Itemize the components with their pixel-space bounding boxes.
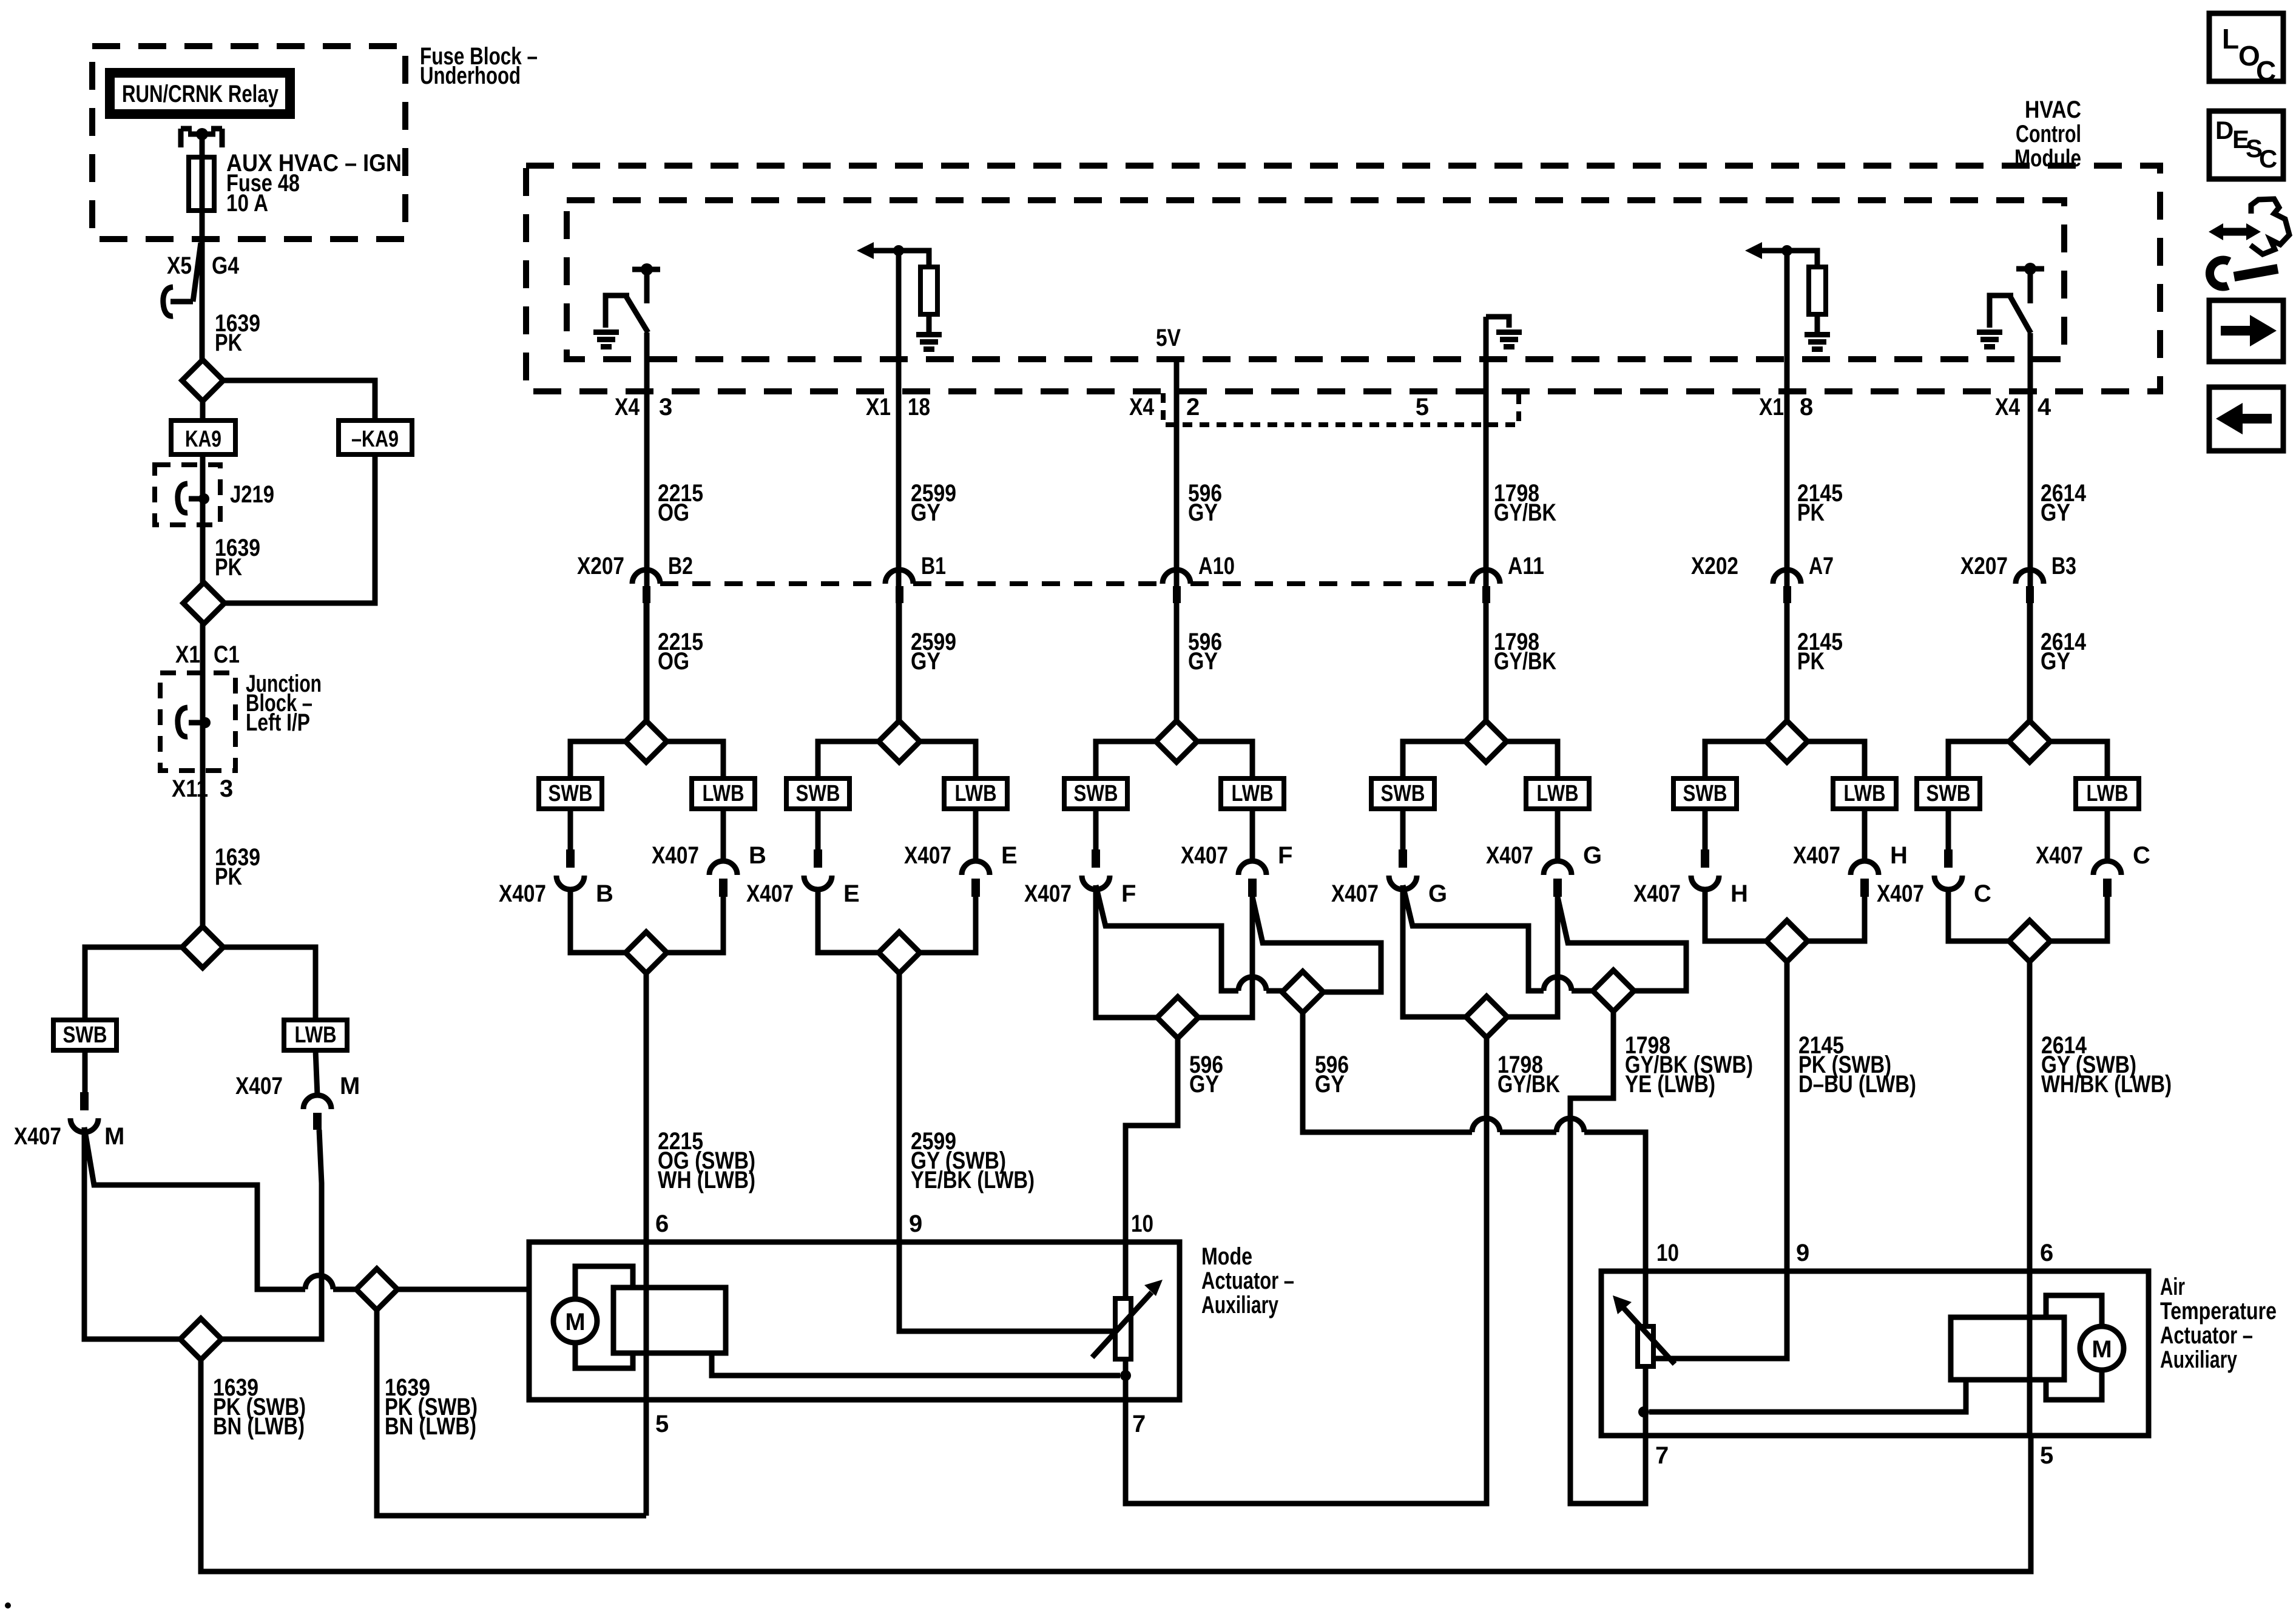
splice diamond split col3: [1156, 721, 1197, 762]
connector X407 B LWB col1: [709, 861, 737, 875]
splice diamond rejoin col1: [626, 932, 667, 973]
svg-text:X407: X407: [1633, 880, 1681, 907]
svg-text:SWB: SWB: [1381, 781, 1425, 806]
wire col5 to split diamond: [1784, 603, 1790, 721]
svg-text:GY: GY: [2041, 499, 2070, 526]
wire relay to fuse: [200, 137, 205, 157]
svg-text:5: 5: [1416, 394, 1429, 420]
potentiometer mode actuator: [1123, 1242, 1129, 1298]
svg-text:X202: X202: [1691, 553, 1738, 579]
hop over col3 LWB wire: [1238, 977, 1266, 991]
motor loop air actuator: [2046, 1295, 2102, 1326]
module ground at pin X4/5: [1486, 317, 1509, 328]
svg-text:LWB: LWB: [955, 781, 997, 806]
wire KA9 to junction J219: [200, 454, 206, 582]
svg-text:YE/BK (LWB): YE/BK (LWB): [911, 1167, 1035, 1193]
svg-text:D–BU (LWB): D–BU (LWB): [1798, 1071, 1916, 1098]
svg-text:GY: GY: [911, 499, 940, 526]
icon DESC box: [2209, 111, 2283, 179]
svg-text:X407: X407: [1024, 880, 1072, 907]
svg-text:SWB: SWB: [549, 781, 593, 806]
wire X407 F SWB slant path to splice B: [1096, 885, 1238, 991]
connector X207 row bump col1: [632, 570, 660, 584]
air temp actuator box: [1601, 1271, 2149, 1436]
fuse F48 symbol: [189, 157, 214, 211]
splice diamond S5: [356, 1269, 397, 1310]
svg-text:SWB: SWB: [63, 1022, 107, 1048]
icon LOC box: [2209, 13, 2283, 81]
wire X407 M right path to splice S4: [221, 1130, 322, 1339]
svg-text:X407: X407: [652, 842, 699, 869]
wire SWB col1 to connector: [568, 809, 573, 849]
junction block splice symbol: [178, 707, 187, 737]
svg-text:18: 18: [908, 394, 930, 420]
svg-text:L: L: [2222, 23, 2239, 55]
mode actuator box: [529, 1242, 1180, 1400]
wire X407 SWB col5 to rejoin: [1705, 890, 1766, 941]
wire module X4/5 down: [1484, 317, 1489, 721]
wire X407 LWB col2 to rejoin: [920, 897, 976, 953]
wiper wire from pin 9 air: [1653, 1271, 1787, 1359]
svg-text:X5: X5: [167, 252, 192, 279]
icon wrench and arrows: [2209, 199, 2289, 287]
wire X407 SWB col1 to rejoin: [570, 890, 626, 953]
wire LWB col1 to connector: [721, 809, 726, 861]
svg-text:PK: PK: [215, 554, 242, 581]
wire block to pin7 junction mode: [712, 1353, 1120, 1376]
splice diamond B col3: [1282, 971, 1323, 1013]
svg-text:X407: X407: [235, 1073, 283, 1099]
svg-text:B2: B2: [668, 553, 693, 579]
connector X407 E LWB col2: [962, 861, 990, 875]
svg-text:KA9: KA9: [185, 427, 221, 452]
svg-text:M: M: [565, 1309, 585, 1335]
wire hop to splice B: [1266, 988, 1282, 994]
svg-text:GY: GY: [1315, 1071, 1345, 1098]
svg-text:7: 7: [1655, 1442, 1669, 1469]
svg-text:X11: X11: [172, 775, 208, 802]
connector X407 M left symbol: [80, 1092, 89, 1110]
svg-text:Mode: Mode: [1201, 1243, 1252, 1270]
splice diamond C col4: [1466, 996, 1507, 1038]
wire X407 LWB col6 to rejoin: [2050, 897, 2107, 941]
svg-text:PK: PK: [1797, 499, 1825, 526]
connector X407 G SWB col4: [1399, 849, 1407, 868]
HVAC control module outer dashed box: [526, 166, 2160, 391]
relay RUN/CRNK Relay box: [110, 73, 290, 114]
splice diamond split col2: [879, 721, 920, 762]
svg-text:GY: GY: [1189, 1071, 1219, 1098]
box SWB left: [53, 1020, 116, 1050]
wire SWB to X407 M: [83, 1050, 88, 1092]
svg-text:9: 9: [1796, 1240, 1809, 1266]
svg-text:SWB: SWB: [796, 781, 840, 806]
svg-text:X407: X407: [1877, 880, 1924, 907]
svg-text:X407: X407: [14, 1123, 61, 1150]
wire split to LWB col6: [2050, 741, 2107, 778]
svg-text:2: 2: [1186, 394, 1200, 420]
splice diamond S2: [183, 582, 225, 624]
splice diamond S1: [182, 360, 223, 401]
box SWB col6: [1917, 778, 1980, 809]
wire air pin6 through block: [2027, 1271, 2033, 1436]
svg-text:X207: X207: [1960, 553, 2008, 579]
wire SWB col3 to connector: [1093, 809, 1099, 849]
svg-text:Underhood: Underhood: [420, 62, 521, 89]
svg-text:BN (LWB): BN (LWB): [385, 1413, 476, 1440]
box SWB col2: [786, 778, 849, 809]
wire mode pin6 through block: [644, 1242, 649, 1400]
svg-text:3: 3: [659, 394, 672, 420]
svg-text:SWB: SWB: [1683, 781, 1727, 806]
svg-text:D: D: [2215, 116, 2234, 144]
wire X407 M left straight path to splice S4: [84, 1127, 180, 1339]
svg-text:LWB: LWB: [2087, 781, 2129, 806]
splice diamond split col6: [2009, 721, 2050, 762]
svg-text:4: 4: [2038, 394, 2051, 420]
svg-text:X407: X407: [2036, 842, 2083, 869]
wire LWB col3 to connector: [1250, 809, 1255, 861]
wire S3 to LWB branch: [223, 947, 316, 1020]
block rectangle air actuator: [1951, 1317, 2064, 1380]
svg-text:OG: OG: [658, 499, 689, 526]
wire splice C to mode actuator pin 7: [1126, 1038, 1487, 1504]
svg-text:M: M: [2092, 1336, 2112, 1363]
relay contact symbol: [178, 129, 184, 147]
svg-text:YE (LWB): YE (LWB): [1625, 1071, 1715, 1098]
svg-text:10: 10: [1656, 1240, 1679, 1266]
connector X407 G LWB col4: [1544, 861, 1572, 875]
splice diamond D col4: [1593, 970, 1634, 1011]
wire SWB col2 to connector: [815, 809, 821, 849]
splice diamond rejoin col5: [1766, 920, 1808, 962]
svg-text:LWB: LWB: [703, 781, 745, 806]
wire X407 G SWB slant path to splice D: [1403, 885, 1544, 991]
svg-text:C: C: [2133, 842, 2150, 869]
svg-text:G4: G4: [212, 252, 240, 279]
connector X207 row bump col6: [2016, 570, 2044, 584]
wire split to SWB col6: [1948, 741, 2009, 778]
svg-text:LWB: LWB: [1232, 781, 1274, 806]
svg-text:X407: X407: [499, 880, 546, 907]
svg-text:X1: X1: [175, 641, 200, 668]
svg-text:M: M: [340, 1073, 360, 1099]
svg-text:GY: GY: [1188, 499, 1218, 526]
wire LWB col4 to connector: [1555, 809, 1561, 861]
potentiometer arrow air: [1624, 1308, 1675, 1364]
wire S3 to SWB branch: [85, 947, 182, 1020]
svg-text:6: 6: [2040, 1240, 2053, 1266]
svg-text:SWB: SWB: [1926, 781, 1971, 806]
wire X407 SWB col6 to rejoin: [1948, 890, 2009, 941]
svg-text:Control: Control: [2016, 121, 2081, 147]
wire split to SWB col2: [818, 741, 879, 778]
wire split to LWB col2: [920, 741, 976, 778]
wire mode pin5 down: [644, 1400, 649, 1516]
wire col1 rejoin to mode actuator pin 6: [644, 973, 649, 1242]
svg-text:Auxiliary: Auxiliary: [1201, 1292, 1279, 1318]
wire col2 rejoin to mode actuator pin 9: [897, 973, 902, 1242]
svg-text:X4: X4: [1129, 394, 1155, 420]
svg-text:X1: X1: [1759, 394, 1784, 420]
wire SWB col6 to connector: [1946, 809, 1951, 849]
wire X407 LWB col1 to rejoin: [667, 897, 723, 953]
svg-text:B: B: [596, 880, 613, 907]
wire col3 to split diamond: [1174, 603, 1180, 721]
connector row X207 dashed line: [660, 581, 885, 586]
stray dot bottom left: [5, 1602, 11, 1609]
splice diamond split col1: [626, 721, 667, 762]
svg-text:GY/BK: GY/BK: [1497, 1071, 1560, 1098]
hop over col4 SWB wire: [1472, 1118, 1500, 1132]
svg-text:7: 7: [1132, 1411, 1146, 1437]
wire X407 SWB col2 to rejoin: [818, 890, 879, 953]
motor loop mode actuator: [575, 1266, 633, 1299]
module resistor to ground at pin X1/8: [1760, 248, 1787, 254]
svg-text:C: C: [1974, 880, 1991, 907]
svg-text:PK: PK: [215, 863, 242, 890]
wire col1 to split diamond: [644, 603, 649, 721]
svg-text:M: M: [104, 1123, 124, 1150]
wire module X1/8 down: [1784, 251, 1790, 721]
junction dot air pin7: [1638, 1406, 1649, 1417]
wiper wire from pin 9 mode: [899, 1242, 1115, 1331]
box LWB col2: [944, 778, 1007, 809]
svg-text:5: 5: [2040, 1442, 2053, 1469]
svg-text:Auxiliary: Auxiliary: [2160, 1346, 2238, 1373]
svg-text:C: C: [2259, 144, 2277, 173]
svg-text:PK: PK: [1797, 648, 1825, 675]
svg-text:X407: X407: [904, 842, 951, 869]
box LWB col5: [1833, 778, 1896, 809]
svg-text:F: F: [1121, 880, 1136, 907]
svg-text:E: E: [1001, 842, 1018, 869]
icon arrow left box: [2209, 387, 2283, 451]
module switch to ground at pin X4/3: [632, 267, 660, 272]
module resistor to ground at pin X1/18: [871, 248, 899, 254]
svg-text:A7: A7: [1809, 553, 1834, 579]
connector X207 row bump col4: [1472, 570, 1500, 584]
svg-text:5: 5: [655, 1411, 669, 1437]
svg-text:HVAC: HVAC: [2025, 96, 2081, 123]
block rectangle mode actuator: [613, 1288, 726, 1353]
svg-text:B: B: [749, 842, 766, 869]
svg-text:Temperature: Temperature: [2160, 1298, 2277, 1325]
connector X407 H SWB col5: [1701, 849, 1709, 868]
box LWB col3: [1221, 778, 1284, 809]
wire splice B to air temp actuator pin 10: [1303, 1013, 1472, 1132]
svg-text:6: 6: [655, 1210, 669, 1237]
wire X407 F LWB slant path to splice B: [1252, 897, 1381, 992]
wire LWB col6 to connector: [2105, 809, 2110, 861]
connector X407 F LWB col3: [1238, 861, 1266, 875]
wire split to SWB col3: [1096, 741, 1156, 778]
wire SWB col4 to connector: [1400, 809, 1406, 849]
splice diamond rejoin col6: [2009, 920, 2050, 962]
connector X407 C LWB col6: [2093, 861, 2121, 875]
potentiometer air actuator: [1643, 1271, 1649, 1326]
svg-text:X1: X1: [866, 394, 891, 420]
svg-text:GY: GY: [1188, 648, 1218, 675]
box LWB col6: [2076, 778, 2139, 809]
svg-text:Actuator –: Actuator –: [2160, 1322, 2253, 1349]
wire fuse to X5 connector: [200, 211, 205, 360]
svg-text:C1: C1: [214, 641, 240, 668]
wire X407 G SWB straight path to splice C: [1403, 885, 1466, 1017]
hop over col4 LWB wire upper: [1544, 977, 1572, 991]
svg-text:X407: X407: [1793, 842, 1840, 869]
svg-text:G: G: [1583, 842, 1602, 869]
splice diamond split col4: [1465, 721, 1507, 762]
svg-text:WH/BK (LWB): WH/BK (LWB): [2041, 1071, 2172, 1098]
connector X407 B SWB col1: [566, 849, 575, 868]
svg-text:SWB: SWB: [1074, 781, 1118, 806]
connector X207 row bump col5: [1773, 570, 1801, 584]
HVAC control module inner dashed box: [567, 200, 2064, 359]
connector X207 row bump col2: [885, 570, 913, 584]
box SWB col1: [539, 778, 602, 809]
box -KA9: [339, 420, 412, 454]
wire S2 down to junction block: [200, 624, 206, 927]
connector X407 E SWB col2: [814, 849, 822, 868]
wire split to LWB col3: [1197, 741, 1252, 778]
svg-text:Module: Module: [2014, 145, 2081, 172]
motor M mode actuator: [553, 1299, 597, 1343]
motor M air actuator: [2080, 1326, 2124, 1370]
wire col6 rejoin to air temp actuator pin 6: [2027, 962, 2033, 1271]
svg-text:PK: PK: [215, 329, 242, 356]
wire splice A to mode actuator pin 10: [1126, 1038, 1178, 1242]
svg-text:H: H: [1890, 842, 1908, 869]
connector X407 F SWB col3: [1092, 849, 1100, 868]
wire X407 F LWB straight path to splice A: [1198, 897, 1252, 1018]
wire S4 bottom rail to air temp actuator pin 5: [201, 1360, 2031, 1571]
wire col6 to split diamond: [2027, 603, 2033, 721]
wire LWB col2 to connector: [973, 809, 979, 861]
connector X5 symbol: [193, 243, 201, 302]
wire to -KA9 branch: [223, 380, 375, 420]
connector X407 H LWB col5: [1851, 861, 1879, 875]
svg-text:10: 10: [1131, 1210, 1153, 1237]
splice diamond S3: [182, 927, 223, 968]
box SWB col5: [1673, 778, 1737, 809]
wire X407 M left slant path to splice S5: [84, 1127, 305, 1289]
wire module X4/4 down: [2028, 333, 2033, 721]
wire module X4/3 down: [644, 333, 650, 721]
wire hop to splice S5: [333, 1287, 356, 1292]
fuse block underhood dashed box: [92, 46, 405, 239]
svg-text:Air: Air: [2160, 1274, 2185, 1300]
wire block to pin7 junction air: [1649, 1380, 1966, 1412]
svg-text:BN (LWB): BN (LWB): [213, 1413, 305, 1440]
box SWB col3: [1064, 778, 1127, 809]
box LWB col1: [692, 778, 755, 809]
svg-text:GY: GY: [2041, 648, 2070, 675]
svg-text:GY: GY: [911, 648, 940, 675]
svg-text:X207: X207: [577, 553, 624, 579]
wire X407 G LWB slant path to splice D: [1558, 897, 1686, 991]
wire S5 to mode actuator box: [397, 1287, 529, 1292]
svg-text:H: H: [1730, 880, 1748, 907]
svg-text:J219: J219: [230, 481, 274, 508]
svg-text:X407: X407: [746, 880, 794, 907]
wire module 5V down from inner box: [1174, 359, 1180, 721]
svg-text:B3: B3: [2051, 553, 2076, 579]
svg-text:OG: OG: [658, 648, 689, 675]
connector X4 sub-dashed outline pins 2 and 5: [1163, 393, 1519, 425]
svg-text:X407: X407: [1331, 880, 1379, 907]
icon arrow right box: [2209, 300, 2283, 362]
wire col4 to split diamond: [1484, 603, 1489, 721]
connector X407 C SWB col6: [1944, 849, 1953, 868]
hop over col4 LWB wire: [1556, 1118, 1584, 1132]
connector X207 row bump col3: [1163, 570, 1190, 584]
svg-text:LWB: LWB: [1537, 781, 1579, 806]
wire split to SWB col1: [570, 741, 626, 778]
splice diamond rejoin col2: [879, 932, 920, 973]
wire SWB col5 to connector: [1703, 809, 1708, 849]
svg-text:LWB: LWB: [1844, 781, 1886, 806]
svg-text:A11: A11: [1508, 553, 1544, 579]
svg-text:9: 9: [909, 1210, 922, 1237]
splice diamond A col3: [1157, 997, 1198, 1038]
junction J219 dashed box: [155, 465, 220, 525]
svg-text:G: G: [1428, 880, 1447, 907]
svg-text:X4: X4: [1995, 394, 2021, 420]
wire col5 rejoin to air temp actuator pin 9: [1784, 962, 1790, 1271]
box SWB col4: [1371, 778, 1434, 809]
svg-text:X4: X4: [615, 394, 640, 420]
svg-text:WH (LWB): WH (LWB): [658, 1167, 755, 1193]
wire S5 down to mode actuator pin 5: [377, 1310, 646, 1516]
svg-text:8: 8: [1800, 394, 1813, 420]
svg-text:GY/BK: GY/BK: [1494, 499, 1556, 526]
wire X407 F SWB straight path to splice A: [1096, 885, 1157, 1018]
junction dot mode pin7: [1120, 1370, 1131, 1381]
wire split to SWB col4: [1403, 741, 1465, 778]
svg-text:F: F: [1278, 842, 1292, 869]
wire X407 LWB col5 to rejoin: [1808, 897, 1865, 941]
wire splice D to air temp actuator pin 7: [1570, 1011, 1646, 1504]
svg-text:10 A: 10 A: [226, 190, 268, 217]
svg-text:LWB: LWB: [295, 1022, 337, 1048]
wire X407 G LWB straight path to splice C: [1507, 897, 1558, 1017]
wire LWB col5 to connector: [1862, 809, 1868, 861]
svg-text:GY/BK: GY/BK: [1494, 648, 1556, 675]
wire col2 to split diamond: [897, 603, 902, 721]
wire S1 to KA9: [200, 401, 206, 420]
wire split to LWB col1: [667, 741, 723, 778]
svg-text:C: C: [2256, 55, 2276, 87]
wire split to SWB col5: [1705, 741, 1766, 778]
junction block left I/P dashed box: [160, 673, 235, 771]
wire module X1/18 down: [896, 251, 902, 721]
svg-text:Actuator –: Actuator –: [1201, 1268, 1294, 1294]
potentiometer arrow mode: [1092, 1292, 1152, 1357]
svg-text:E: E: [843, 880, 860, 907]
wire split to LWB col5: [1808, 741, 1865, 778]
svg-text:X407: X407: [1181, 842, 1228, 869]
splice diamond split col5: [1766, 721, 1808, 762]
wire split to LWB col4: [1507, 741, 1558, 778]
svg-text:5V: 5V: [1156, 325, 1181, 351]
svg-text:B1: B1: [921, 553, 946, 579]
box KA9: [171, 420, 235, 454]
box LWB col4: [1526, 778, 1589, 809]
wire -KA9 to splice S2: [225, 454, 375, 603]
svg-text:Left I/P: Left I/P: [246, 709, 310, 736]
module switch to ground at pin X4/4: [2016, 266, 2044, 272]
